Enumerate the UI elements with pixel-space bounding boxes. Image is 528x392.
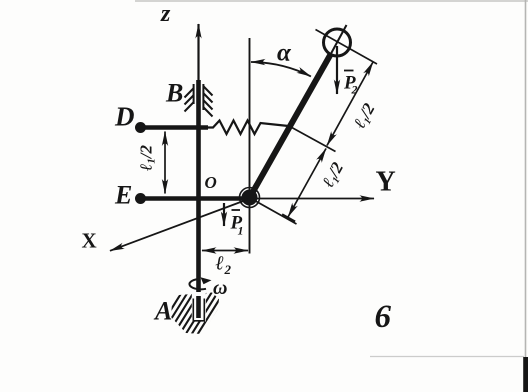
svg-text:E: E <box>114 181 132 210</box>
svg-text:D: D <box>114 102 135 132</box>
svg-text:Y: Y <box>376 167 396 198</box>
svg-text:ℓ1/2: ℓ1/2 <box>137 145 158 171</box>
svg-text:2: 2 <box>351 83 358 97</box>
svg-text:ℓ: ℓ <box>216 253 225 275</box>
svg-text:6: 6 <box>375 299 392 335</box>
svg-text:B: B <box>165 79 183 108</box>
svg-text:X: X <box>82 229 97 253</box>
svg-text:A: A <box>153 297 172 326</box>
svg-text:α: α <box>277 40 292 67</box>
svg-text:1: 1 <box>238 224 244 238</box>
svg-text:O: O <box>205 173 217 192</box>
svg-text:2: 2 <box>224 262 232 277</box>
svg-text:z: z <box>160 1 171 27</box>
